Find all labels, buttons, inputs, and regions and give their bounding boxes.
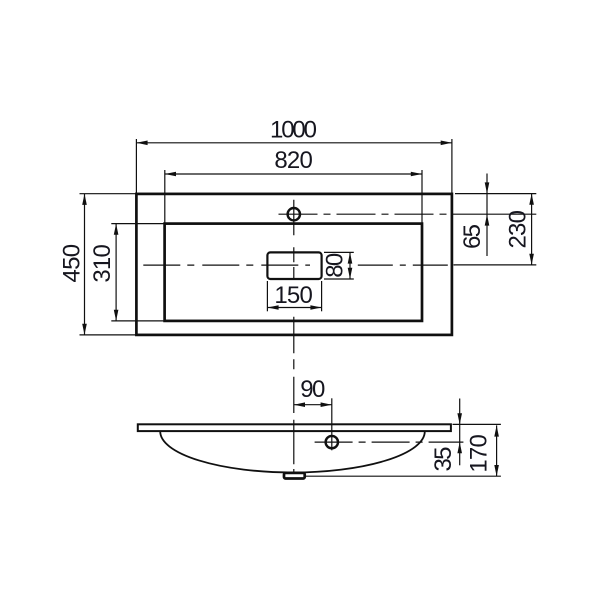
dimension 170: bottom extension line — [305, 475, 501, 477]
dimension 820: line — [165, 173, 422, 175]
dimension 1000: line — [136, 142, 452, 144]
overflow rectangle (150 x 80) — [267, 252, 321, 279]
dimension 80: top extension line — [324, 251, 354, 253]
vertical main centerline segments — [293, 200, 295, 473]
svg-text:90: 90 — [300, 376, 325, 403]
svg-text:820: 820 — [274, 147, 313, 174]
dimension 170: top extension line — [453, 423, 501, 425]
dimension 1000: right extension line — [451, 139, 453, 194]
outer basin rectangle (1000 x 450 top view) — [136, 194, 452, 335]
dimension 80: line — [349, 252, 351, 279]
side view slab rectangle — [138, 424, 451, 431]
dimension 90: line — [294, 404, 332, 406]
horizontal main centerline right part — [358, 264, 455, 266]
inner basin rectangle (820 x 310) — [165, 224, 422, 321]
dimension 1000: left extension line — [135, 139, 137, 194]
dimension 65: line — [486, 174, 488, 257]
dimension 310: arrows — [114, 224, 119, 321]
svg-text:230: 230 — [504, 210, 531, 249]
overflow hole vertical line / dim 90 right extension — [331, 398, 333, 450]
dimension 90: arrows — [294, 402, 332, 407]
dimension 310: line — [115, 224, 117, 321]
dimension 820: arrows — [165, 172, 422, 177]
dimension 150: line — [267, 307, 321, 309]
svg-text:1000: 1000 — [270, 117, 317, 144]
drain rectangle — [284, 473, 305, 479]
right extension line drain centerline — [454, 264, 537, 266]
svg-text:170: 170 — [466, 434, 493, 473]
svg-text:65: 65 — [459, 224, 486, 249]
dimension 230: line — [531, 194, 533, 265]
right extension line top edge — [455, 193, 536, 195]
side view bowl arc — [160, 431, 425, 472]
dimension 450: arrows — [82, 194, 87, 335]
dimension 1000: arrows — [136, 141, 452, 146]
svg-text:35: 35 — [430, 447, 457, 472]
faucet hole centerline right extension — [455, 213, 536, 215]
dimension 80: arrows — [348, 252, 353, 279]
svg-text:450: 450 — [59, 244, 86, 283]
faucet hole circle — [288, 208, 300, 220]
dimension 150: left extension line — [266, 281, 268, 311]
dimension 35: arrows — [457, 413, 462, 453]
dimension 35: line — [459, 399, 461, 466]
dimension 450: bottom extension line — [80, 334, 136, 336]
svg-text:150: 150 — [274, 282, 313, 309]
horizontal main centerline left part — [143, 264, 310, 266]
dimension 65: arrows — [485, 182, 490, 225]
dimension 170: line — [496, 425, 498, 476]
svg-text:80: 80 — [321, 253, 348, 278]
dimension 310: bottom extension line — [111, 320, 164, 322]
dimension 310: top extension line — [111, 223, 164, 225]
dimension 80: bottom extension line — [324, 278, 354, 280]
dimension 820: left extension line — [164, 170, 166, 224]
dimension 450: line — [84, 194, 86, 335]
dimension 170: arrows — [494, 425, 499, 476]
dimension 450: top extension line — [80, 193, 136, 195]
overflow hole horizontal centerline side view — [315, 441, 464, 443]
dimension 150: right extension line — [321, 281, 323, 311]
dimension 150: arrows — [267, 305, 321, 310]
overflow hole circle side view — [326, 436, 338, 448]
dimension 230: arrows — [529, 194, 534, 265]
dimension 820: right extension line — [421, 170, 423, 224]
faucet hole horizontal centerline — [279, 213, 456, 215]
svg-text:310: 310 — [89, 244, 116, 283]
